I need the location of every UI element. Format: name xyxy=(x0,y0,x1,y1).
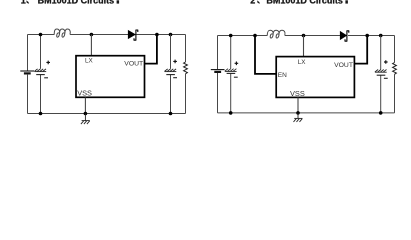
ground GND1 xyxy=(81,114,90,125)
resistor R1 xyxy=(184,62,188,74)
title 2 xyxy=(250,0,348,6)
wire top right segment xyxy=(137,34,186,36)
wire LX pin xyxy=(303,36,305,57)
inductor L2 xyxy=(267,30,287,38)
wire right rail lower xyxy=(185,74,187,114)
node dot: input cap bottom xyxy=(39,112,43,116)
svg-text:BM1001D Circuits: BM1001D Circuits xyxy=(38,0,115,6)
wire bottom rail xyxy=(218,112,395,114)
node dot: VOUT riser xyxy=(365,34,369,38)
capacitor C4 (output, electrolytic) xyxy=(375,36,388,113)
op-amp U2 (BM1001D box) xyxy=(276,57,354,98)
node dot: EN riser xyxy=(253,34,257,38)
wire top right segment xyxy=(348,35,395,37)
wire left rail upper xyxy=(27,35,29,71)
wire left rail lower xyxy=(27,75,29,114)
node dot: output cap top xyxy=(379,34,383,38)
battery BT2 xyxy=(211,70,225,72)
svg-text:1: 1 xyxy=(21,0,26,6)
node dot: VOUT riser xyxy=(155,33,159,37)
node dot: VSS/ground xyxy=(296,111,300,115)
wire EN pin (thick) xyxy=(255,36,276,74)
title 1 xyxy=(21,0,119,6)
wire LX pin xyxy=(90,35,92,56)
node dot: LX branch xyxy=(90,33,94,37)
svg-text:2: 2 xyxy=(250,0,255,6)
svg-text:LX: LX xyxy=(298,59,307,66)
wire right rail lower xyxy=(394,74,396,113)
svg-text:VOUT: VOUT xyxy=(124,60,143,67)
capacitor C3 (input, electrolytic) xyxy=(225,36,238,113)
svg-text:VSS: VSS xyxy=(290,89,305,98)
node dot: input cap bottom xyxy=(229,111,233,115)
wire top mid segment xyxy=(287,35,341,37)
inductor L1 xyxy=(54,29,72,37)
wire top left segment xyxy=(218,35,268,37)
svg-text:LX: LX xyxy=(85,58,94,65)
node dot: VSS/ground xyxy=(84,112,88,116)
node dot: output cap bottom xyxy=(169,112,173,116)
wire VSS pin xyxy=(297,97,299,113)
wire bottom rail xyxy=(28,113,186,115)
node dot: input cap top xyxy=(229,34,233,38)
svg-text:EN: EN xyxy=(278,72,287,79)
wire VOUT pin (thick) xyxy=(354,36,367,64)
svg-text:BM1001D Circuits: BM1001D Circuits xyxy=(266,0,343,6)
node dot: LX branch xyxy=(302,34,306,38)
node dot: output cap bottom xyxy=(379,111,383,115)
svg-text:VOUT: VOUT xyxy=(334,62,353,69)
diode D1 (schottky) xyxy=(128,30,138,40)
wire VSS pin xyxy=(84,98,86,114)
node dot: input cap top xyxy=(39,33,43,37)
resistor R2 xyxy=(393,63,397,75)
wire top mid segment xyxy=(72,34,128,36)
svg-text:VSS: VSS xyxy=(77,88,92,97)
wire left rail lower xyxy=(217,73,219,113)
ground GND2 xyxy=(294,113,303,122)
wire right rail upper xyxy=(185,35,187,63)
wire top left segment xyxy=(28,34,55,36)
diode D2 (schottky) xyxy=(340,31,349,41)
op-amp U1 (BM1001D box) xyxy=(76,56,145,98)
capacitor C2 (output, electrolytic) xyxy=(165,35,178,114)
wire left rail upper xyxy=(217,36,219,70)
battery BT1 xyxy=(20,71,34,73)
wire right rail upper xyxy=(394,36,396,63)
wire VOUT pin (thick) xyxy=(145,35,157,64)
capacitor C1 (input, electrolytic) xyxy=(34,35,50,114)
node dot: output cap top xyxy=(169,33,173,37)
